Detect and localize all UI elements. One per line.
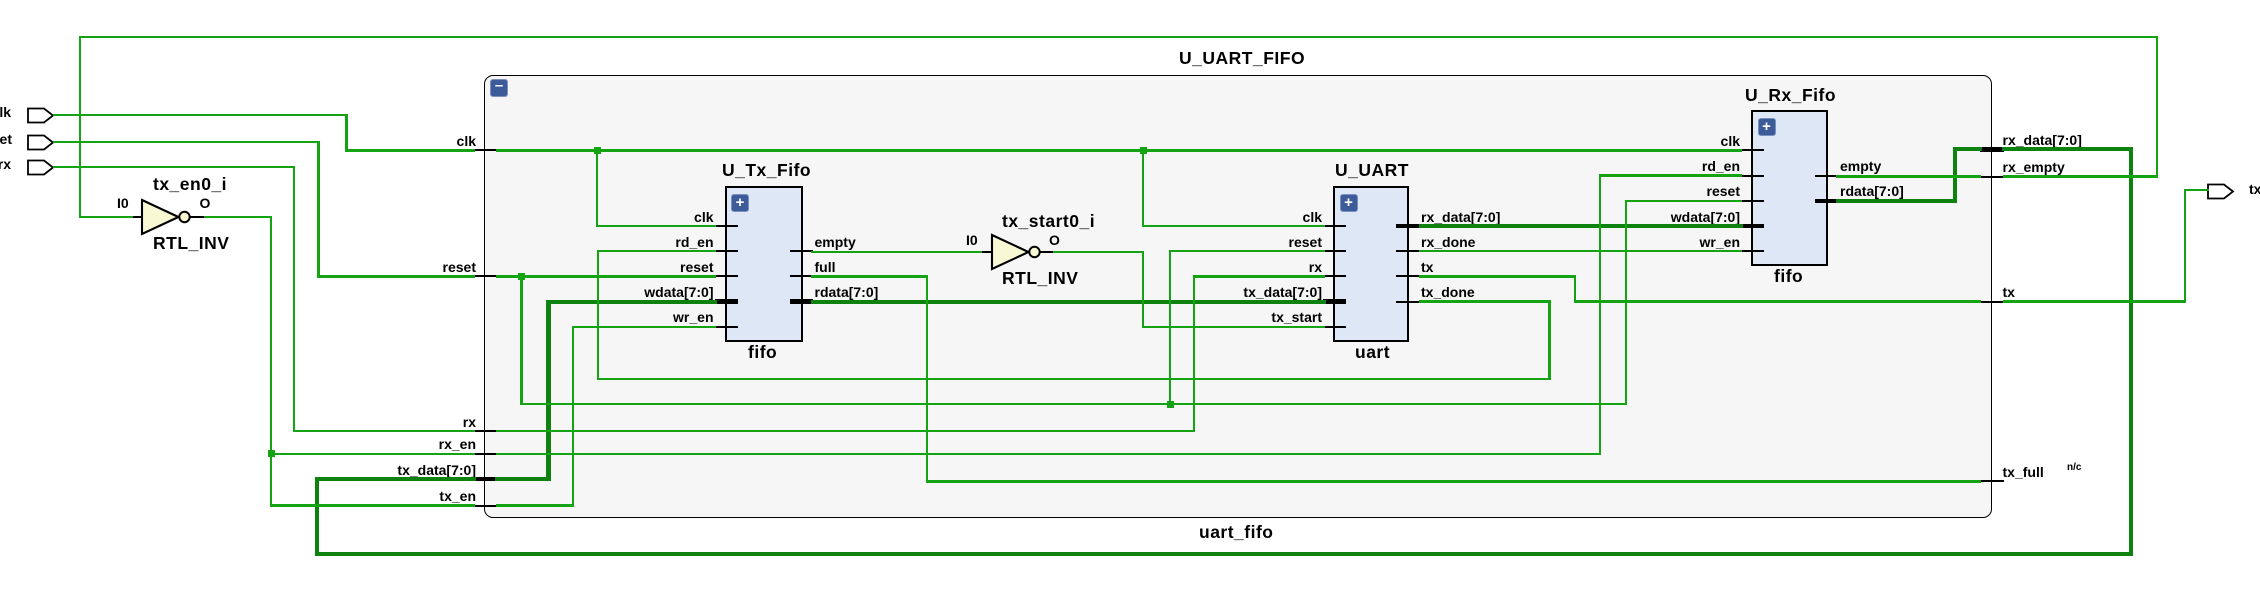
wire rx_en to container xyxy=(270,453,475,455)
wire reset from port xyxy=(53,141,320,143)
U_UART pin label reset xyxy=(922,235,1322,249)
U_UART pin tx_done stub xyxy=(1396,301,1419,303)
wire tx_start0_i output xyxy=(1053,251,1144,253)
wire tx_en0_i output xyxy=(204,216,273,218)
title U_Tx_Fifo xyxy=(722,162,811,180)
U_UART_FIFO pin label clk xyxy=(76,134,476,148)
wire clk drop xyxy=(345,114,347,152)
inverter tx_en0_i xyxy=(140,198,195,236)
U_UART_FIFO pin tx_data[7:0] stub xyxy=(474,477,498,482)
U_Tx_Fifo pin rd_en stub xyxy=(715,250,738,252)
wire tx_done from U_UART xyxy=(1419,300,1550,302)
wire tx_en to U_Tx_Fifo wr_en pin xyxy=(572,326,716,328)
wire tx rail to edge xyxy=(1574,300,1981,302)
U_Rx_Fifo pin label reset xyxy=(1340,184,1740,198)
wire clk to U_Tx_Fifo clk pin xyxy=(596,225,716,227)
U_UART_FIFO pin label tx_en xyxy=(76,489,476,503)
U_UART_FIFO pin tx_en stub xyxy=(474,505,498,507)
wire to tx_en0_i input xyxy=(79,216,133,218)
U_UART pin rx stub xyxy=(1323,275,1346,277)
label uart_fifo xyxy=(1199,524,1274,542)
wire rx_en to U_Rx_Fifo rd_en pin xyxy=(1599,174,1742,176)
bus drop right side xyxy=(2129,147,2133,556)
U_Tx_Fifo pin label wdata[7:0] xyxy=(314,285,714,299)
wire full from U_Tx_Fifo xyxy=(811,275,928,277)
U_UART pin tx_start stub xyxy=(1323,326,1346,328)
wire tx drop xyxy=(1574,275,1576,303)
port label tx (clipped) xyxy=(2249,182,2260,196)
block U_Tx_Fifo xyxy=(725,186,803,342)
wire rx from port xyxy=(53,166,295,168)
wire reset riser to U_Rx_Fifo xyxy=(1625,200,1627,406)
wire rx to U_UART rx pin xyxy=(1193,275,1325,277)
U_UART pin label tx_data[7:0] xyxy=(922,285,1322,299)
wire tx_en riser xyxy=(572,326,574,507)
port label reset xyxy=(0,132,12,146)
inverter tx_start0_i xyxy=(990,233,1045,271)
U_Tx_Fifo pin label rd_en xyxy=(314,235,714,249)
bus rdata from U_Rx_Fifo xyxy=(1836,199,1958,203)
module U_UART_FIFO container xyxy=(484,75,1992,519)
U_Tx_Fifo pin label clk xyxy=(314,210,714,224)
wire rx_en rail inside xyxy=(496,453,1602,455)
junction reset at x1170 xyxy=(1167,401,1174,408)
U_UART_FIFO pin label tx_data[7:0] xyxy=(76,463,476,477)
n/c annotation xyxy=(2067,463,2081,473)
U_UART pin reset stub xyxy=(1323,250,1346,252)
wire reset to U_UART reset pin xyxy=(1169,250,1325,252)
U_UART_FIFO pin tx_full stub xyxy=(1980,480,2004,482)
wire tx_start to U_UART pin xyxy=(1142,326,1325,328)
U_UART pin label tx_start xyxy=(922,310,1322,324)
wire tx_full rail xyxy=(926,480,1981,482)
wire tx_en drop xyxy=(270,216,272,507)
wire tx_start drop xyxy=(1142,251,1144,328)
U_Rx_Fifo pin label clk xyxy=(1340,134,1740,148)
wire top rail xyxy=(79,36,2158,38)
U_Rx_Fifo pin reset stub xyxy=(1741,200,1764,202)
wire rx rail inside xyxy=(496,430,1196,432)
label RTL_INV of tx_en0_i xyxy=(153,235,229,253)
U_Tx_Fifo pin rdata[7:0] stub xyxy=(790,299,813,304)
label RTL_INV of tx_start0_i xyxy=(1002,270,1078,288)
wire reset rail to U_Tx_Fifo xyxy=(496,275,716,277)
U_Rx_Fifo pin label wr_en xyxy=(1340,235,1740,249)
input port rx xyxy=(27,159,55,176)
wire tx_en to container xyxy=(270,504,475,506)
label U_UART_FIFO xyxy=(1179,50,1305,68)
U_Rx_Fifo pin label rd_en xyxy=(1340,159,1740,173)
U_UART pin label rx_done xyxy=(1421,235,1475,249)
wire rx_empty from U_Rx_Fifo empty pin xyxy=(1836,175,1981,177)
input port clk xyxy=(27,107,55,124)
U_UART_FIFO pin clk stub xyxy=(474,149,498,151)
bus tx_data riser xyxy=(546,300,550,482)
U_UART pin label rx_data[7:0] xyxy=(1421,210,1500,224)
title U_UART xyxy=(1335,162,1409,180)
instance label uart xyxy=(1355,344,1390,362)
U_Rx_Fifo pin label rdata[7:0] xyxy=(1840,184,1904,198)
wire rx drop xyxy=(293,166,295,433)
port label clk xyxy=(0,105,11,119)
wire rx_done to wr_en xyxy=(1419,250,1741,252)
bus riser to rx_data out xyxy=(1953,147,1957,203)
input port reset xyxy=(27,134,55,151)
wire clk to U_UART clk pin xyxy=(1142,225,1325,227)
U_Tx_Fifo pin label rdata[7:0] xyxy=(815,285,879,299)
U_UART pin label rx xyxy=(922,260,1322,274)
U_Rx_Fifo pin rd_en stub xyxy=(1741,175,1764,177)
wire reset drop xyxy=(317,141,319,278)
title U_Rx_Fifo xyxy=(1745,87,1836,105)
bus rx_data outside xyxy=(2002,147,2133,151)
block U_UART xyxy=(1333,186,1409,342)
U_Tx_Fifo pin label wr_en xyxy=(314,310,714,324)
U_UART pin label clk xyxy=(922,210,1322,224)
U_UART_FIFO pin reset stub xyxy=(474,275,498,277)
wire empty to tx_start0_i input xyxy=(811,251,981,253)
U_Tx_Fifo pin empty stub xyxy=(790,250,813,252)
wire clk riser to U_Tx_Fifo xyxy=(596,149,598,227)
U_Tx_Fifo pin wdata[7:0] stub xyxy=(715,299,738,304)
wire clk to container xyxy=(345,149,474,151)
bus tx_data to U_Tx_Fifo wdata xyxy=(546,300,717,304)
U_Rx_Fifo pin clk stub xyxy=(1741,149,1764,151)
U_Tx_Fifo pin label full xyxy=(815,260,836,274)
U_UART_FIFO pin rx_empty stub xyxy=(1980,176,2004,178)
U_UART_FIFO pin tx stub xyxy=(1980,301,2004,303)
wire tx_done riser to rd_en xyxy=(597,250,599,380)
wire clk rail inside xyxy=(496,149,1742,151)
wire full drop xyxy=(926,275,928,482)
U_Rx_Fifo pin wr_en stub xyxy=(1741,250,1764,252)
U_UART expand plus icon xyxy=(1340,194,1358,212)
bus tx_data to container xyxy=(315,477,476,481)
wire drop to tx_en0_i input xyxy=(79,36,81,218)
U_UART_FIFO pin rx_data[7:0] stub xyxy=(1980,147,2004,152)
bus bottom rail xyxy=(315,552,2133,556)
junction reset at x521.6 xyxy=(518,273,525,280)
tx_en0_i input stub xyxy=(131,216,144,218)
wire tx riser to port xyxy=(2184,189,2186,303)
U_Tx_Fifo pin label reset xyxy=(314,260,714,274)
U_UART_FIFO pin label rx_data[7:0] xyxy=(2003,133,2082,147)
instance label fifo xyxy=(1774,268,1803,286)
wire rx to container xyxy=(293,430,475,432)
U_Tx_Fifo pin label empty xyxy=(815,235,856,249)
U_UART pin rx_data[7:0] stub xyxy=(1396,224,1419,229)
U_Rx_Fifo pin wdata[7:0] stub xyxy=(1741,224,1764,229)
U_Rx_Fifo pin rdata[7:0] stub xyxy=(1815,199,1838,204)
tx_en0_i output stub xyxy=(190,216,204,218)
wire tx_done drop xyxy=(1548,300,1550,380)
U_Tx_Fifo pin reset stub xyxy=(715,275,738,277)
wire reset rail y404 xyxy=(520,403,1627,405)
U_UART_FIFO pin label tx xyxy=(2003,285,2015,299)
U_Tx_Fifo pin wr_en stub xyxy=(715,326,738,328)
tx_start0_i output stub xyxy=(1039,251,1054,253)
U_UART pin label tx_done xyxy=(1421,285,1475,299)
U_Rx_Fifo pin label empty xyxy=(1840,159,1881,173)
wire tx_done rail y379 xyxy=(597,378,1551,380)
wire clk riser to U_UART xyxy=(1142,149,1144,227)
label I0 of tx_en0_i xyxy=(117,196,129,210)
U_UART_FIFO pin label tx_full xyxy=(2003,465,2044,479)
wire tx_en rail inside xyxy=(496,504,575,506)
wire reset to U_Rx_Fifo reset pin xyxy=(1625,200,1742,202)
U_UART_FIFO pin rx stub xyxy=(474,430,498,432)
U_Tx_Fifo pin full stub xyxy=(790,275,813,277)
wire reset to container xyxy=(317,275,474,277)
U_UART pin label tx xyxy=(1421,260,1433,274)
port label rx xyxy=(0,157,11,171)
label O of tx_start0_i xyxy=(1049,233,1060,247)
label tx_start0_i xyxy=(1002,213,1095,231)
label O of tx_en0_i xyxy=(200,196,211,210)
tx_start0_i input stub xyxy=(980,251,993,253)
U_UART pin tx stub xyxy=(1396,275,1419,277)
U_UART_FIFO pin label reset xyxy=(76,260,476,274)
bus rx_data to U_Rx_Fifo wdata xyxy=(1419,224,1743,228)
U_UART_FIFO pin label rx_empty xyxy=(2003,160,2065,174)
block U_Rx_Fifo xyxy=(1751,110,1828,266)
bus riser left side xyxy=(315,477,319,557)
wire rx_en riser xyxy=(1599,174,1601,455)
U_Tx_Fifo pin clk stub xyxy=(715,225,738,227)
wire rd_en to U_Tx_Fifo xyxy=(597,250,716,252)
bus rx_data to edge xyxy=(1953,147,1982,151)
wire clk from port xyxy=(53,114,348,116)
wire reset drop to rail xyxy=(520,275,522,405)
U_UART_FIFO pin label rx_en xyxy=(76,437,476,451)
U_UART pin rx_done stub xyxy=(1396,250,1419,252)
U_Rx_Fifo pin label wdata[7:0] xyxy=(1340,210,1740,224)
bus tx_data inside xyxy=(495,477,551,481)
label I0 of tx_start0_i xyxy=(966,233,978,247)
U_Rx_Fifo expand plus icon xyxy=(1758,118,1776,136)
U_UART_FIFO pin label rx xyxy=(76,415,476,429)
instance label fifo xyxy=(748,344,777,362)
collapse minus icon xyxy=(490,79,508,97)
wire tx to port xyxy=(2184,189,2209,191)
U_Rx_Fifo pin empty stub xyxy=(1815,175,1838,177)
junction clk at x1143 xyxy=(1140,147,1147,154)
bus rdata to U_UART tx_data xyxy=(811,300,1326,304)
wire tx outside xyxy=(2003,300,2186,302)
U_UART_FIFO pin rx_en stub xyxy=(474,453,498,455)
output port tx xyxy=(2207,183,2235,200)
junction rx_en tap xyxy=(268,450,275,457)
U_Tx_Fifo expand plus icon xyxy=(731,194,749,212)
U_UART pin tx_data[7:0] stub xyxy=(1323,299,1346,304)
junction clk at x597 xyxy=(594,147,601,154)
wire rx_empty outside xyxy=(2003,175,2158,177)
wire tx from U_UART xyxy=(1419,275,1576,277)
label tx_en0_i xyxy=(153,176,227,194)
wire rx_empty riser to top xyxy=(2156,36,2158,178)
wire reset riser to U_UART xyxy=(1169,250,1171,405)
U_UART pin clk stub xyxy=(1323,225,1346,227)
wire rx riser xyxy=(1193,275,1195,432)
